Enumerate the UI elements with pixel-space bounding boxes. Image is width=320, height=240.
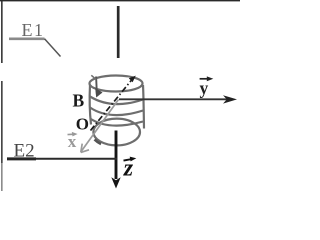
y axis line <box>119 98 230 100</box>
wire E2 underline lead <box>7 157 36 160</box>
wire E2 to z axis <box>36 158 117 160</box>
z axis label <box>123 156 137 182</box>
wire coil top lead <box>117 6 120 58</box>
z axis line (wire to E2 junction) <box>115 131 118 180</box>
wire E1 diagonal <box>45 39 61 57</box>
x axis label <box>68 132 78 151</box>
x axis line (gray, toward viewer) <box>82 100 119 152</box>
inductor coil L <box>90 75 145 145</box>
axis dash-dot line through O <box>91 80 133 131</box>
y axis label <box>200 76 214 97</box>
svg-text:E1: E1 <box>22 20 45 40</box>
svg-text:B: B <box>73 91 85 111</box>
wire E1 underline lead <box>9 37 45 40</box>
svg-text:O: O <box>76 114 89 133</box>
